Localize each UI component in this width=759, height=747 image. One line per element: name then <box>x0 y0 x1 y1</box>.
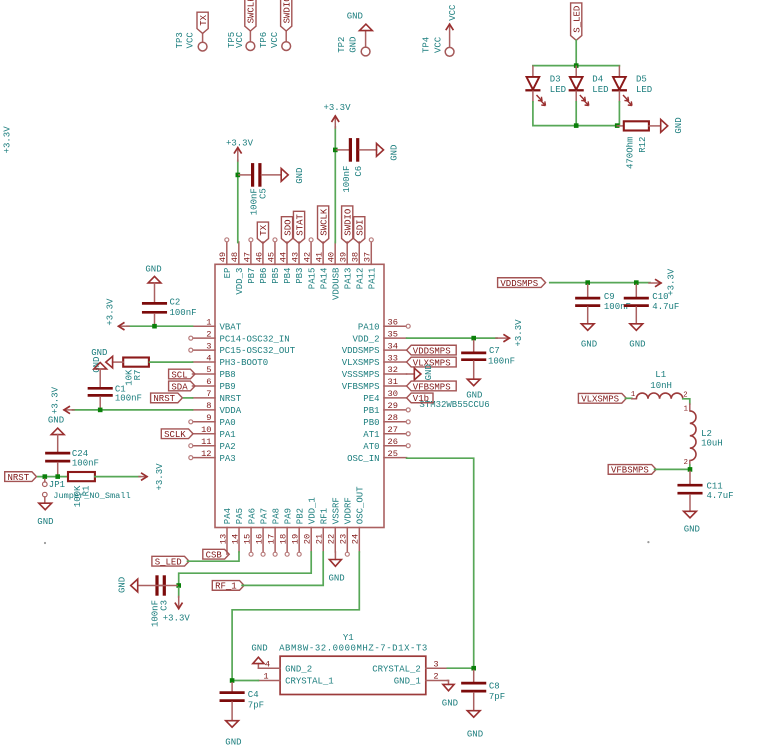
svg-text:GND: GND <box>347 11 363 21</box>
ground symbol above C2 <box>145 265 161 283</box>
svg-text:PA6: PA6 <box>247 508 257 524</box>
ground symbol below C10 <box>629 324 645 350</box>
svg-text:+3.3V: +3.3V <box>514 319 524 347</box>
power symbol +3.3V right of R1 <box>139 463 165 491</box>
svg-text:C9: C9 <box>604 292 615 302</box>
global label SWCLK at TP5 <box>245 0 257 31</box>
svg-text:VFBSMPS: VFBSMPS <box>342 382 380 392</box>
svg-text:GND: GND <box>674 117 684 133</box>
pin 40 VDDUSB <box>327 242 342 300</box>
svg-text:NRST: NRST <box>8 473 30 483</box>
wire S_LED to pin14 <box>188 552 240 561</box>
svg-text:100nF: 100nF <box>72 458 99 468</box>
wire crystal pin3 to junction <box>447 667 473 669</box>
global label SWDIO at pin39 <box>342 206 354 243</box>
capacitor C7 <box>463 341 516 379</box>
ground symbol below C11 <box>684 511 700 534</box>
global label VDDSMPS at pin34 <box>407 345 457 356</box>
ground symbol at pin32 <box>407 364 434 380</box>
junction C6 pin40 <box>333 148 338 153</box>
svg-text:VFBSMPS: VFBSMPS <box>611 466 649 476</box>
global label SDA at pin6 <box>169 381 195 392</box>
wire pin24 to crystal <box>232 552 359 681</box>
svg-text:AT0: AT0 <box>363 442 379 452</box>
pin 13 PA4 <box>218 508 233 554</box>
svg-text:2: 2 <box>206 329 211 339</box>
pin 41 PA14 <box>315 242 330 289</box>
svg-text:OSC_OUT: OSC_OUT <box>356 486 366 524</box>
svg-text:SWDIO: SWDIO <box>344 209 354 236</box>
svg-text:SWCLK: SWCLK <box>319 208 329 236</box>
svg-text:GND: GND <box>684 525 700 535</box>
svg-text:42: 42 <box>302 252 312 262</box>
svg-text:GND: GND <box>442 698 458 708</box>
pin 49 EP <box>218 238 233 279</box>
global label TX at pin46 <box>257 222 269 243</box>
IC U1 STM32WB55CCU6 body <box>215 264 490 527</box>
ground symbol below C7 <box>466 379 482 400</box>
global label STAT at pin43 <box>293 211 305 243</box>
svg-text:40: 40 <box>327 252 337 262</box>
svg-text:47: 47 <box>242 252 252 262</box>
svg-text:28: 28 <box>388 413 398 423</box>
global label VLXSMPS right <box>578 393 626 404</box>
wire R7 to pin4 <box>150 361 193 363</box>
global label RF_1 at pin21 <box>212 581 244 592</box>
jumper JP1 <box>43 479 131 503</box>
svg-text:NRST: NRST <box>153 394 175 404</box>
svg-text:GND_2: GND_2 <box>285 664 312 674</box>
pin 1 CRYSTAL_1 <box>258 672 333 687</box>
svg-text:+3.3V: +3.3V <box>50 386 60 414</box>
test point TP6 <box>259 31 290 50</box>
svg-text:C7: C7 <box>489 346 500 356</box>
global label SCLK at pin10 <box>161 429 193 440</box>
pin 42 PA15 <box>302 238 317 289</box>
svg-text:C8: C8 <box>489 681 500 691</box>
wire pin25 to crystal <box>407 458 474 668</box>
pin 8 VDDA <box>193 401 242 416</box>
pin 2 GND_1 <box>394 672 448 687</box>
power symbol +3.3V below C3 <box>163 588 191 624</box>
svg-text:V1b: V1b <box>413 394 429 404</box>
wire LED top rail <box>533 65 620 67</box>
svg-text:100nF: 100nF <box>115 393 142 403</box>
svg-text:SDI: SDI <box>356 219 366 235</box>
ground symbol at TP2 <box>347 11 373 30</box>
wire S_LED to LED rail <box>575 40 577 65</box>
svg-text:46: 46 <box>254 252 264 262</box>
svg-text:STAT: STAT <box>295 213 305 235</box>
svg-text:VLXSMPS: VLXSMPS <box>581 395 619 405</box>
svg-text:PA10: PA10 <box>358 322 380 332</box>
svg-text:GND: GND <box>328 573 344 583</box>
resistor R1 <box>68 472 95 507</box>
pin 33 VLXSMPS <box>342 353 407 368</box>
junction C24 row <box>55 474 60 479</box>
inductor L1 <box>631 370 688 399</box>
pin 20 VDD_1 <box>303 497 318 552</box>
pin 30 PE4 <box>363 389 406 404</box>
svg-text:TP4: TP4 <box>422 37 432 53</box>
pin 15 PA6 <box>242 508 257 556</box>
svg-text:3: 3 <box>433 659 438 669</box>
global label NRST at pin7 <box>151 393 183 404</box>
global label VFBSMPS right <box>608 465 656 476</box>
svg-text:VDDA: VDDA <box>220 406 242 416</box>
global label TX at TP3 <box>197 12 209 33</box>
svg-text:PA14: PA14 <box>319 268 329 290</box>
svg-text:1: 1 <box>206 317 211 327</box>
pin 38 PA12 <box>351 242 366 289</box>
svg-text:GND: GND <box>117 577 127 593</box>
svg-text:8: 8 <box>206 401 211 411</box>
svg-text:PB7: PB7 <box>247 268 257 284</box>
svg-text:18: 18 <box>279 534 289 544</box>
pin 31 VFBSMPS <box>342 377 407 392</box>
wire RF_1 to pin21 <box>242 552 323 585</box>
svg-text:49: 49 <box>218 252 228 262</box>
svg-text:PC14-OSC32_IN: PC14-OSC32_IN <box>220 334 290 344</box>
power symbol +3.3V above C5 <box>226 138 254 161</box>
svg-text:PA15: PA15 <box>307 268 317 290</box>
pin 23 VDDRF <box>339 497 354 556</box>
svg-text:1: 1 <box>263 672 268 682</box>
svg-text:TP6: TP6 <box>259 32 269 48</box>
junction C5 pin48 <box>236 173 241 178</box>
svg-text:TX: TX <box>259 224 269 235</box>
wire pin20 to C3 <box>179 552 312 586</box>
pin 26 AT0 <box>363 437 410 452</box>
svg-text:13: 13 <box>218 534 228 544</box>
svg-text:19: 19 <box>291 534 301 544</box>
junction R12 left <box>615 123 620 128</box>
svg-text:VSSRF: VSSRF <box>331 497 341 524</box>
wire VDDSMPS rail <box>550 282 650 284</box>
svg-text:29: 29 <box>388 401 398 411</box>
svg-text:2: 2 <box>433 672 438 682</box>
svg-text:PB1: PB1 <box>363 406 379 416</box>
junction C10 <box>634 280 639 285</box>
svg-text:PA9: PA9 <box>283 508 293 524</box>
svg-text:31: 31 <box>388 377 398 387</box>
svg-text:GND: GND <box>390 145 400 161</box>
capacitor C5 <box>239 165 281 216</box>
svg-text:PB9: PB9 <box>220 382 236 392</box>
svg-text:GND: GND <box>37 517 53 527</box>
pin 19 PB2 <box>291 508 306 556</box>
global label SDI at pin38 <box>354 217 366 244</box>
svg-text:44: 44 <box>278 252 288 262</box>
wire pin35 +3.3V <box>407 337 497 339</box>
power symbol +3.3V at pin1 <box>105 298 129 330</box>
ground symbol above C24 <box>48 415 64 434</box>
pin 3 PC15-OSC32_OUT <box>189 341 296 356</box>
ground symbol at crystal pin4 <box>251 644 267 669</box>
pin 34 VDDSMPS <box>342 341 407 356</box>
svg-text:43: 43 <box>290 252 300 262</box>
pin 4 GND_2 <box>258 659 312 674</box>
resistor R7 <box>123 358 149 386</box>
svg-text:VBAT: VBAT <box>220 322 242 332</box>
svg-text:4: 4 <box>265 659 270 669</box>
svg-text:7pF: 7pF <box>248 701 264 711</box>
pin 14 PA5 <box>230 508 245 552</box>
junction C7 pin35 <box>471 336 476 341</box>
svg-text:TX: TX <box>199 14 209 25</box>
svg-text:VDDSMPS: VDDSMPS <box>413 346 451 356</box>
junction C9 <box>585 280 590 285</box>
svg-text:SWDIO: SWDIO <box>283 0 293 23</box>
svg-text:33: 33 <box>388 353 398 363</box>
power symbol +3.3V at pin35 <box>496 319 524 347</box>
svg-text:45: 45 <box>266 252 276 262</box>
svg-text:LED: LED <box>592 85 608 95</box>
pin 45 PB5 <box>266 238 281 284</box>
svg-text:27: 27 <box>388 425 398 435</box>
pin 29 PB1 <box>363 401 410 416</box>
svg-text:GND: GND <box>225 738 241 747</box>
svg-text:EP: EP <box>223 268 233 279</box>
wire NRST to pin7 <box>184 397 193 399</box>
junction NRST JP1 <box>43 474 48 479</box>
svg-text:GND: GND <box>467 729 483 739</box>
svg-text:+3.3V: +3.3V <box>163 614 191 624</box>
capacitor C6 <box>337 140 377 193</box>
svg-text:10: 10 <box>201 425 211 435</box>
svg-text:C10: C10 <box>652 292 668 302</box>
svg-text:15: 15 <box>242 534 252 544</box>
ground symbol at R12 <box>661 117 684 133</box>
svg-text:CSB: CSB <box>206 551 223 561</box>
svg-text:OSC_IN: OSC_IN <box>347 454 379 464</box>
pin 1 VBAT <box>193 317 242 332</box>
node dot left <box>44 542 46 544</box>
svg-text:9: 9 <box>206 413 211 423</box>
svg-text:C2: C2 <box>170 298 181 308</box>
LED D3 <box>527 66 567 105</box>
svg-text:1: 1 <box>684 406 688 414</box>
pin 12 PA3 <box>189 449 236 464</box>
pin 5 PB8 <box>193 365 236 380</box>
svg-text:R7: R7 <box>133 370 143 381</box>
svg-text:LED: LED <box>550 85 566 95</box>
svg-text:CRYSTAL_2: CRYSTAL_2 <box>372 664 421 674</box>
junction C8 crystal <box>471 666 476 671</box>
svg-text:SWCLK: SWCLK <box>247 0 257 23</box>
pin 27 AT1 <box>363 425 410 440</box>
svg-text:GND: GND <box>295 168 305 184</box>
global label NRST bottom-left <box>5 472 37 483</box>
svg-text:16: 16 <box>254 534 264 544</box>
svg-text:PE4: PE4 <box>363 394 379 404</box>
wire D5 to bottom rail <box>618 102 620 126</box>
svg-text:C4: C4 <box>248 690 259 700</box>
svg-text:11: 11 <box>201 437 211 447</box>
pin 47 PB7 <box>242 238 257 284</box>
ground symbol below C4 <box>225 721 241 747</box>
svg-text:PA3: PA3 <box>220 454 236 464</box>
ground symbol left of R7 <box>92 356 123 373</box>
svg-text:34: 34 <box>388 341 398 351</box>
svg-text:S_LED: S_LED <box>155 558 182 568</box>
pin 11 PA2 <box>189 437 236 452</box>
pin 18 PA9 <box>279 508 294 556</box>
svg-text:2: 2 <box>684 459 688 467</box>
pin 25 OSC_IN <box>347 449 407 464</box>
svg-text:VCC: VCC <box>448 4 458 21</box>
svg-text:VCC: VCC <box>235 31 245 48</box>
svg-text:3: 3 <box>206 341 211 351</box>
capacitor C8 <box>463 670 506 710</box>
wire pin40 up <box>334 127 336 243</box>
capacitor C3 <box>138 575 178 627</box>
pin 9 PA0 <box>189 413 236 428</box>
svg-text:GND: GND <box>466 390 482 400</box>
svg-text:L1: L1 <box>655 370 666 380</box>
svg-text:+3.3V: +3.3V <box>155 463 165 491</box>
svg-text:+3.3V: +3.3V <box>226 138 254 148</box>
svg-text:VDDSMPS: VDDSMPS <box>500 279 538 289</box>
global label SWCLK at pin41 <box>318 206 330 243</box>
node dot right <box>647 541 649 543</box>
svg-text:CRYSTAL_1: CRYSTAL_1 <box>285 677 334 687</box>
svg-text:PC15-OSC32_OUT: PC15-OSC32_OUT <box>220 346 296 356</box>
svg-text:JP1: JP1 <box>49 480 65 490</box>
wire VFBSMPS to junction <box>655 465 690 469</box>
svg-text:TP3: TP3 <box>175 32 185 48</box>
svg-text:48: 48 <box>230 252 240 262</box>
svg-text:RF1: RF1 <box>319 508 329 524</box>
capacitor C10 <box>625 285 679 324</box>
svg-text:23: 23 <box>339 534 349 544</box>
svg-text:VDDUSB: VDDUSB <box>331 267 341 300</box>
svg-text:RF_1: RF_1 <box>215 582 237 592</box>
svg-text:VCC: VCC <box>433 36 443 53</box>
svg-text:26: 26 <box>388 437 398 447</box>
ground symbol right of C5 <box>281 168 305 184</box>
wire VLXSMPS to L1 <box>625 397 631 399</box>
svg-text:38: 38 <box>351 252 361 262</box>
svg-text:L2: L2 <box>701 429 712 439</box>
pin 37 PA11 <box>363 238 378 289</box>
svg-text:PB6: PB6 <box>259 268 269 284</box>
svg-text:4.7uF: 4.7uF <box>652 302 679 312</box>
svg-text:VLXSMPS: VLXSMPS <box>342 358 380 368</box>
svg-text:AT1: AT1 <box>363 430 379 440</box>
capacitor C4 <box>221 683 264 721</box>
global label SWDIO at TP6 <box>281 0 293 31</box>
junction C2 pin1 <box>152 324 157 329</box>
global label VDDSMPS right <box>498 278 546 289</box>
pin 22 VSSRF <box>327 497 342 552</box>
svg-text:17: 17 <box>267 534 277 544</box>
svg-text:7: 7 <box>206 389 211 399</box>
pin 44 PB4 <box>278 242 293 284</box>
svg-text:PA13: PA13 <box>343 268 353 290</box>
svg-text:32: 32 <box>388 365 398 375</box>
test point TP4 <box>422 36 454 56</box>
svg-text:PB5: PB5 <box>271 268 281 284</box>
capacitor C1 <box>89 369 142 409</box>
svg-text:36: 36 <box>388 317 398 327</box>
svg-text:GND: GND <box>629 340 645 350</box>
wire D4 to bottom rail <box>575 102 577 126</box>
svg-text:ABM8W-32.0000MHZ-7-D1X-T3: ABM8W-32.0000MHZ-7-D1X-T3 <box>279 643 428 653</box>
svg-text:100nF: 100nF <box>170 308 197 318</box>
pin 3 CRYSTAL_2 <box>372 659 447 674</box>
svg-text:S_LED: S_LED <box>573 6 583 33</box>
svg-text:14: 14 <box>230 534 240 544</box>
ground symbol at crystal pin2 <box>442 681 458 709</box>
svg-text:PB2: PB2 <box>295 508 305 524</box>
svg-text:TP2: TP2 <box>337 37 347 53</box>
svg-text:LED: LED <box>636 85 652 95</box>
svg-text:GND: GND <box>48 415 64 425</box>
svg-text:PA4: PA4 <box>223 508 233 524</box>
crystal Y1 body <box>279 633 428 695</box>
pin 7 NRST <box>193 389 242 404</box>
svg-text:35: 35 <box>388 329 398 339</box>
svg-text:C24: C24 <box>72 449 88 459</box>
svg-text:R12: R12 <box>638 137 648 153</box>
svg-text:VFBSMPS: VFBSMPS <box>413 382 451 392</box>
power symbol VCC at TP4 <box>446 4 458 47</box>
svg-text:D4: D4 <box>592 75 603 85</box>
power symbol +3.3V at pin8 <box>50 386 74 414</box>
ground symbol left of C3 <box>117 577 137 593</box>
svg-text:SCL: SCL <box>171 370 187 380</box>
capacitor C2 <box>143 283 196 325</box>
wire pin1 +3.3V rail <box>127 325 193 327</box>
svg-text:PB4: PB4 <box>283 268 293 284</box>
svg-text:C5: C5 <box>259 188 269 199</box>
wire pin48 up <box>237 161 239 243</box>
svg-text:GND_1: GND_1 <box>394 677 421 687</box>
svg-text:PA8: PA8 <box>271 508 281 524</box>
global label S_LED top <box>571 3 583 40</box>
wire NRST row <box>38 476 68 478</box>
svg-text:24: 24 <box>351 534 361 544</box>
svg-text:VCC: VCC <box>270 31 280 48</box>
test point TP2 <box>337 31 370 56</box>
svg-text:VDD_1: VDD_1 <box>307 497 317 524</box>
svg-text:25: 25 <box>388 449 398 459</box>
wire junction to crystal pin1 <box>232 680 258 682</box>
svg-text:20: 20 <box>303 534 313 544</box>
svg-text:PA11: PA11 <box>367 268 377 290</box>
svg-text:30: 30 <box>388 389 398 399</box>
svg-text:Jumper_NO_Small: Jumper_NO_Small <box>53 491 130 501</box>
global label SCL at pin5 <box>169 369 195 380</box>
svg-text:NRST: NRST <box>220 394 242 404</box>
svg-text:21: 21 <box>315 534 325 544</box>
junction C4 crystal <box>230 678 235 683</box>
svg-text:4: 4 <box>206 353 211 363</box>
capacitor C9 <box>577 285 631 324</box>
pin 32 VSSSMPS <box>342 365 407 380</box>
resistor R12 <box>617 121 661 169</box>
svg-text:D3: D3 <box>550 75 561 85</box>
svg-text:PA12: PA12 <box>355 268 365 290</box>
power symbol +3.3V right of rail <box>649 268 676 296</box>
svg-text:SCLK: SCLK <box>164 430 186 440</box>
svg-text:SDA: SDA <box>171 382 188 392</box>
svg-text:GND: GND <box>91 348 107 358</box>
pin 6 PB9 <box>193 377 236 392</box>
svg-text:C3: C3 <box>160 600 170 611</box>
wire D3 to bottom rail <box>533 102 617 126</box>
